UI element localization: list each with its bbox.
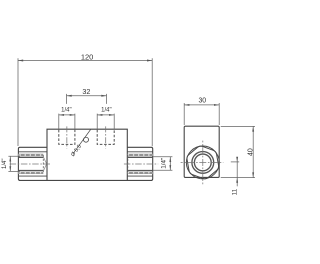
port 2 extension lines	[97, 114, 114, 129]
svg-text:11: 11	[231, 188, 238, 195]
dim 40 line	[252, 126, 254, 177]
right hex flat edge upper	[127, 151, 152, 153]
dim 120 extension lines	[18, 58, 152, 146]
side view vertical centreline	[202, 141, 204, 185]
hex across-flats circle	[186, 146, 219, 179]
dim 32 line	[67, 95, 107, 97]
left hex flat edge lower	[18, 175, 47, 177]
valve body centre block (front view)	[47, 129, 127, 180]
left port dim line	[9, 156, 11, 171]
hex end cap	[187, 146, 219, 179]
dim 32 extension lines	[67, 94, 107, 104]
left hex flat edge upper	[18, 151, 47, 153]
right hex end cap silhouette	[127, 147, 152, 180]
port bore circle	[194, 154, 211, 171]
dim 120 line	[18, 60, 152, 62]
right hex flat edge lower	[127, 175, 152, 177]
right port dim extension lines	[153, 157, 173, 171]
dim 1/4 port 2 line	[97, 114, 114, 116]
top port 2 centreline	[105, 126, 107, 148]
body bottom face	[19, 179, 152, 181]
left side port thread band upper	[18, 154, 43, 156]
svg-text:1/4": 1/4"	[160, 158, 167, 169]
dim 40 extension lines	[221, 126, 255, 177]
svg-text:120: 120	[81, 53, 94, 62]
dim 30 extension lines	[184, 103, 219, 125]
svg-text:1/4": 1/4"	[2, 159, 8, 169]
svg-text:1/4": 1/4"	[101, 108, 111, 114]
right side port thread band upper	[128, 154, 153, 156]
svg-text:32: 32	[82, 87, 90, 96]
right side port centreline	[124, 163, 158, 165]
right side port thread band lower	[128, 170, 153, 172]
left hex end cap silhouette	[18, 147, 47, 180]
dim 11 extension tick	[231, 161, 239, 163]
right port dim line	[169, 157, 171, 171]
orifice circle	[84, 137, 89, 142]
top port 1 centreline	[66, 126, 68, 148]
port thread circle	[192, 152, 214, 174]
left port end (hidden)	[42, 155, 44, 173]
svg-text:1/4": 1/4"	[61, 108, 71, 114]
dim 11 line	[236, 157, 238, 186]
right port end (hidden)	[127, 155, 129, 173]
svg-text:30: 30	[198, 97, 206, 104]
side view horizontal centreline	[181, 161, 224, 163]
body end face (side view)	[184, 126, 219, 177]
left side port centreline	[10, 163, 51, 165]
dim 30 line	[184, 104, 219, 106]
port 1 extension lines	[59, 114, 75, 129]
top port 1 threaded hole (hidden)	[59, 130, 75, 145]
svg-text:40: 40	[247, 148, 254, 156]
dim 1/4 port 1 line	[59, 114, 75, 116]
left port dim extension lines	[8, 156, 20, 171]
left side port thread band lower	[18, 170, 43, 172]
top port 2 threaded hole (hidden)	[97, 130, 114, 145]
orifice leader line	[73, 129, 91, 153]
